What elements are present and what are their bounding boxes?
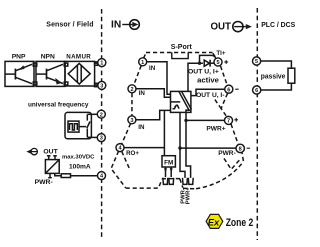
wire to terminal 8: [180, 147, 236, 149]
svg-text:PLC / DCS: PLC / DCS: [261, 22, 295, 29]
sensor NPN box: [36, 61, 65, 86]
pin tabs between NPN and NAMUR: [64, 63, 68, 66]
junction node PWR+: [184, 119, 187, 122]
plus sign terminal 7: [234, 118, 238, 122]
svg-text:PWR+: PWR+: [206, 125, 225, 132]
svg-text:PWR-: PWR-: [218, 150, 236, 157]
svg-text:S-Port: S-Port: [171, 44, 193, 51]
svg-text:max.30VDC: max.30VDC: [62, 154, 95, 160]
wire to terminal 7: [186, 119, 224, 121]
wire device terminal 4 RO+: [124, 147, 164, 149]
wire freq box to terminal 3: [87, 136, 97, 138]
device terminal 6: [225, 85, 233, 93]
FM vertical bus: [163, 110, 165, 155]
svg-text:6: 6: [227, 87, 230, 93]
OUT direction icon small: [26, 148, 37, 154]
svg-text:OUT U, I+: OUT U, I+: [188, 68, 219, 75]
junction node PWR-: [178, 146, 181, 149]
device dashed outline top: [144, 53, 217, 59]
transistor PNP symbol: [5, 64, 32, 83]
OUT direction icon: [233, 22, 252, 32]
svg-text:RO+: RO+: [126, 150, 139, 157]
svg-text:passive: passive: [261, 72, 286, 81]
svg-text:PNP: PNP: [12, 54, 26, 61]
wire resistor to terminal 4: [71, 175, 98, 177]
converter divider: [171, 101, 181, 103]
switch contact: [79, 114, 90, 137]
pin tabs between PNP and NPN: [33, 63, 37, 66]
svg-text:3: 3: [130, 118, 133, 124]
TI+ test tap wire: [200, 55, 216, 63]
plug pin PWR- below box: [48, 173, 52, 177]
junction node: [198, 62, 201, 65]
minus sign terminal 6: [235, 88, 239, 90]
wire device terminal 3 to converter: [136, 110, 171, 119]
sensor PNP box: [5, 61, 34, 86]
NAMUR sensor symbol: [68, 63, 90, 84]
svg-text:IN: IN: [111, 20, 121, 31]
transistor glyph inside converter: [173, 105, 180, 108]
svg-text:6: 6: [255, 88, 258, 94]
wire NAMUR to terminal 3: [95, 84, 98, 86]
right boundary dashed line: [256, 8, 258, 240]
svg-text:NPN: NPN: [41, 54, 55, 61]
field terminal 1: [98, 59, 106, 67]
resistor (field): [61, 174, 70, 178]
field terminal 4: [98, 172, 106, 180]
field terminal 3: [98, 81, 106, 89]
svg-text:universal frequency: universal frequency: [28, 101, 89, 108]
svg-text:active: active: [197, 76, 219, 85]
svg-text:5: 5: [216, 60, 219, 66]
square wave glyph: [70, 124, 78, 130]
svg-text:OUT U, I-: OUT U, I-: [196, 92, 224, 99]
svg-text:Zone 2: Zone 2: [226, 217, 254, 229]
galvanic isolation diagonal: [179, 92, 191, 111]
FM plug pins: [164, 167, 173, 177]
field terminal 2: [97, 110, 105, 118]
svg-text:2: 2: [100, 112, 103, 118]
PLC load resistor: [288, 68, 295, 83]
device terminal 7: [224, 116, 232, 124]
minus sign terminal 8: [247, 147, 251, 149]
device terminal 1: [139, 58, 147, 66]
device terminal 8: [236, 144, 244, 152]
svg-text:3: 3: [100, 136, 103, 142]
svg-text:IN: IN: [138, 124, 145, 131]
wire freq box to terminal 2: [87, 113, 97, 115]
frequency signal sub-box: [68, 121, 79, 132]
svg-text:3: 3: [100, 84, 103, 90]
wire NAMUR to terminal 1: [95, 62, 98, 64]
svg-text:7: 7: [227, 119, 230, 125]
svg-text:1: 1: [100, 61, 103, 67]
field terminal 3 (frequency): [97, 134, 105, 142]
svg-text:5: 5: [255, 59, 258, 65]
wire device terminal 2 to converter: [136, 89, 171, 98]
PWR+ bus: [186, 110, 191, 178]
wire device terminal 1 to converter: [147, 62, 171, 95]
svg-text:TI+: TI+: [216, 50, 225, 57]
signal converter box U1: [171, 91, 191, 112]
FM socket cups: [163, 178, 168, 185]
S-Port connector bracket: [172, 52, 188, 58]
device dashed outline left zigzag: [122, 66, 142, 145]
device terminal 3: [128, 116, 136, 124]
output wire to diode: [188, 63, 203, 91]
wire driver box to resistor: [55, 173, 61, 175]
device dashed outline below RO+: [111, 151, 130, 188]
svg-text:2: 2: [130, 87, 133, 93]
IN direction icon: [122, 20, 139, 30]
PLC terminal 5: [253, 57, 261, 65]
wire converter to terminal 6: [191, 89, 225, 95]
svg-text:PWR-: PWR-: [35, 179, 53, 186]
transistor NPN symbol: [36, 64, 63, 84]
plus sign terminal 5: [224, 60, 228, 64]
driver box with diagonal: [45, 160, 59, 174]
plug pins above driver box: [47, 156, 57, 160]
svg-text:1: 1: [141, 60, 144, 66]
pin tabs right of NAMUR: [95, 62, 98, 65]
svg-text:8: 8: [239, 147, 242, 153]
svg-text:100mA: 100mA: [69, 164, 91, 171]
svg-text:IN: IN: [149, 65, 156, 72]
svg-text:OUT: OUT: [211, 22, 232, 33]
svg-text:Ex: Ex: [208, 217, 220, 228]
svg-text:FM: FM: [164, 159, 173, 166]
left boundary dashed line: [101, 9, 103, 237]
diode D1: [204, 60, 214, 67]
sensor NAMUR box: [65, 61, 95, 86]
Ex hexagon logo: [206, 214, 223, 228]
device terminal 4: [116, 144, 124, 152]
PLC load loop wire: [261, 61, 292, 90]
FM box: [162, 156, 175, 167]
PWR socket cups: [183, 178, 188, 185]
frequency generator box: [65, 112, 91, 138]
device dashed outline bottom: [126, 153, 244, 189]
device terminal 5: [214, 58, 222, 66]
svg-text:NAMUR: NAMUR: [66, 53, 91, 60]
svg-text:Sensor / Field: Sensor / Field: [46, 22, 93, 29]
svg-text:PWR+: PWR+: [185, 187, 191, 205]
PWR- bus: [180, 112, 185, 177]
device dashed outline right zigzag: [215, 66, 241, 169]
svg-text:IN: IN: [139, 90, 146, 97]
svg-text:OUT: OUT: [43, 149, 58, 156]
PLC terminal 6: [253, 86, 261, 94]
device terminal 2: [128, 85, 136, 93]
